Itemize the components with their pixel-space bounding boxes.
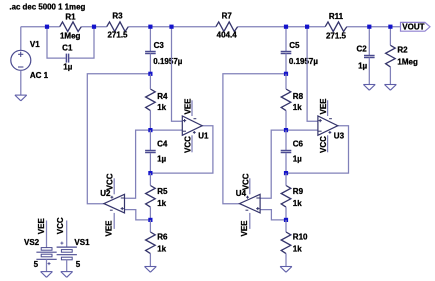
- op-amp U2: [104, 178, 125, 229]
- svg-text:1k: 1k: [293, 199, 302, 208]
- label R5: [157, 187, 168, 196]
- net label VEE U2: [104, 220, 113, 237]
- svg-text:VCC: VCC: [106, 173, 115, 190]
- label C2: [357, 45, 368, 54]
- label U3: [334, 132, 345, 141]
- capacitor C6: [281, 130, 292, 173]
- wire VS2 top: [46, 221, 48, 248]
- label value C3: [153, 57, 182, 66]
- label 5 VS1: [76, 260, 81, 269]
- svg-text:1µ: 1µ: [358, 62, 367, 71]
- resistor R7: [216, 22, 238, 32]
- ground VS2: [41, 272, 53, 278]
- wire top to U1 plus: [172, 27, 183, 122]
- wire U2 out to n2: [87, 74, 150, 204]
- svg-text:1µ: 1µ: [293, 154, 302, 163]
- label R11: [329, 12, 344, 21]
- svg-text:R2: R2: [397, 45, 408, 54]
- svg-text:C6: C6: [293, 139, 304, 148]
- svg-text:VEE: VEE: [37, 218, 46, 235]
- resistor R6: [146, 232, 156, 254]
- wire R4 bottom: [149, 111, 151, 131]
- label R8: [293, 92, 304, 101]
- wire n3 to U1 minus: [150, 129, 182, 131]
- wire R9 top: [285, 173, 287, 185]
- resistor R11: [325, 22, 347, 32]
- wire C2 riser: [368, 27, 370, 56]
- net label VEE U1: [184, 98, 193, 115]
- wire U3 out to n4: [286, 126, 349, 173]
- wire R9 bottom: [285, 207, 287, 220]
- label VS2: [24, 238, 40, 247]
- wire main mid2: [128, 26, 216, 28]
- label 1k R8: [293, 103, 302, 112]
- svg-text:R3: R3: [112, 12, 123, 21]
- label 1u C4: [157, 154, 166, 163]
- spice directive .ac: [9, 3, 85, 12]
- net label VEE U4: [240, 220, 249, 237]
- wire n3 to U2 minus: [125, 130, 151, 198]
- label U4: [236, 189, 247, 198]
- label R3: [112, 12, 123, 21]
- svg-text:0.1957µ: 0.1957µ: [289, 57, 318, 66]
- wire VS1 top: [66, 221, 68, 248]
- op-amp U4: [240, 178, 261, 229]
- svg-text:5: 5: [34, 260, 39, 269]
- net label VCC VS1: [56, 217, 65, 234]
- wire C1 branch: [47, 27, 94, 58]
- label 1Meg R1: [60, 32, 81, 41]
- svg-text:R9: R9: [293, 187, 304, 196]
- node junction C5 top: [284, 25, 288, 29]
- svg-text:VEE: VEE: [240, 220, 249, 237]
- label 1k R4: [157, 103, 166, 112]
- label 5 VS2: [34, 260, 39, 269]
- wire n3 to U3 minus: [286, 129, 318, 131]
- net label VCC U3: [319, 136, 328, 153]
- ground VS1: [61, 272, 73, 278]
- label C3: [154, 41, 165, 50]
- label R6: [157, 232, 168, 241]
- svg-text:AC 1: AC 1: [30, 71, 49, 80]
- svg-text:VCC: VCC: [319, 136, 328, 153]
- ground C2: [363, 85, 375, 91]
- node junction n2 C5-R8: [284, 72, 288, 76]
- wire R2 riser: [389, 27, 391, 46]
- label U1: [198, 132, 209, 141]
- label R4: [157, 92, 168, 101]
- label 1u C1: [63, 63, 72, 72]
- svg-text:VOUT: VOUT: [402, 23, 424, 32]
- ground R2: [385, 85, 397, 91]
- svg-text:C1: C1: [62, 44, 73, 53]
- voltage source VS1: [57, 242, 77, 260]
- capacitor C5: [281, 27, 292, 74]
- ground R6: [145, 267, 157, 273]
- svg-text:U3: U3: [334, 132, 345, 141]
- label R9: [293, 187, 304, 196]
- svg-text:C5: C5: [289, 41, 300, 50]
- label 1u C2: [358, 62, 367, 71]
- wire R10 top: [285, 220, 287, 232]
- svg-text:R11: R11: [329, 12, 344, 21]
- ground R10: [280, 267, 292, 273]
- label R10: [293, 232, 308, 241]
- label C1: [62, 44, 73, 53]
- wire R5 top: [149, 173, 151, 185]
- resistor R8: [281, 89, 291, 111]
- wire n3 to U4 minus: [260, 130, 286, 198]
- svg-text:1k: 1k: [157, 199, 166, 208]
- wire R10 bottom: [285, 254, 287, 267]
- label value C5: [289, 57, 318, 66]
- wire R6 bottom: [149, 254, 151, 267]
- svg-text:1Meg: 1Meg: [397, 58, 418, 67]
- label 271.5 R11: [326, 32, 347, 41]
- svg-text:VEE: VEE: [104, 220, 113, 237]
- node junction riser top: [305, 25, 309, 29]
- svg-text:404.4: 404.4: [217, 31, 238, 40]
- svg-text:VS1: VS1: [74, 238, 90, 247]
- svg-text:VCC: VCC: [56, 217, 65, 234]
- label C6: [293, 139, 304, 148]
- svg-text:R7: R7: [222, 12, 233, 21]
- label V1: [30, 40, 40, 49]
- node junction R1-right: [92, 25, 96, 29]
- svg-text:271.5: 271.5: [326, 32, 347, 41]
- svg-text:R1: R1: [65, 13, 76, 22]
- wire U1 out to n4: [150, 126, 213, 173]
- label 271.5 R3: [107, 31, 128, 40]
- wire R6 top: [149, 220, 151, 232]
- resistor R1: [60, 22, 82, 32]
- wire VS1 to gnd: [66, 260, 68, 272]
- resistor R9: [281, 186, 291, 208]
- wire n5 to U4 plus: [260, 210, 286, 220]
- resistor R10: [281, 232, 291, 254]
- capacitor C2: [364, 56, 375, 58]
- wire top to U3 plus: [307, 27, 318, 122]
- svg-text:1k: 1k: [293, 244, 302, 253]
- wire VS2 to gnd: [46, 259, 48, 271]
- node junction n5 R9-R10: [284, 218, 288, 222]
- svg-text:1µ: 1µ: [157, 154, 166, 163]
- node junction n5 R5-R6: [148, 218, 152, 222]
- node junction C2 top: [367, 25, 371, 29]
- label 1k R9: [293, 199, 302, 208]
- node junction R2 top: [388, 25, 392, 29]
- op-amp U1: [182, 100, 202, 152]
- svg-text:1k: 1k: [293, 103, 302, 112]
- node junction n3 R4-C4: [148, 128, 152, 132]
- svg-text:.ac dec 5000 1 1meg: .ac dec 5000 1 1meg: [9, 3, 85, 12]
- svg-text:VEE: VEE: [319, 98, 328, 115]
- node junction n3 R8-C6: [284, 128, 288, 132]
- wire n5 to U2 plus: [125, 210, 151, 220]
- net label VEE VS2: [37, 218, 46, 235]
- svg-text:R6: R6: [157, 232, 168, 241]
- svg-text:VCC: VCC: [184, 136, 193, 153]
- output port VOUT: [401, 22, 431, 31]
- wire main top: [21, 26, 60, 28]
- wire R8 bottom: [285, 111, 287, 131]
- svg-text:C4: C4: [157, 139, 168, 148]
- wire R8 top: [285, 74, 287, 89]
- svg-text:R10: R10: [293, 232, 308, 241]
- wire U4 out to n2: [223, 74, 286, 204]
- svg-text:271.5: 271.5: [107, 31, 128, 40]
- svg-text:VEE: VEE: [184, 98, 193, 115]
- svg-text:5: 5: [76, 260, 81, 269]
- net label VCC U2: [106, 173, 115, 190]
- op-amp U3: [318, 100, 338, 152]
- wire C2 to gnd: [368, 58, 370, 85]
- wire main mid1: [81, 26, 106, 28]
- svg-text:1Meg: 1Meg: [60, 32, 81, 41]
- svg-text:R4: R4: [157, 92, 168, 101]
- label VS1: [74, 238, 90, 247]
- svg-text:U1: U1: [198, 132, 209, 141]
- net label VCC U1: [184, 136, 193, 153]
- wire R5 bottom: [149, 207, 151, 220]
- resistor R3: [107, 22, 129, 32]
- node junction C3 top: [148, 25, 152, 29]
- node junction n4 C6-R9: [284, 171, 288, 175]
- svg-text:0.1957µ: 0.1957µ: [153, 57, 182, 66]
- capacitor C4: [145, 130, 156, 173]
- svg-text:1k: 1k: [157, 103, 166, 112]
- svg-text:V1: V1: [30, 40, 40, 49]
- ground V1: [15, 95, 27, 101]
- label 1u C6: [293, 154, 302, 163]
- label R7: [222, 12, 233, 21]
- svg-text:C2: C2: [357, 45, 368, 54]
- voltage source V1: [11, 27, 31, 95]
- net label VEE U3: [319, 98, 328, 115]
- svg-text:VCC: VCC: [241, 173, 250, 190]
- label 1k R5: [157, 199, 166, 208]
- label AC 1: [30, 71, 49, 80]
- svg-text:1k: 1k: [157, 244, 166, 253]
- node junction n2 C3-R4: [148, 72, 152, 76]
- voltage source VS2: [36, 248, 56, 266]
- label 1k R10: [293, 244, 302, 253]
- svg-text:R8: R8: [293, 92, 304, 101]
- wire main mid3: [238, 26, 326, 28]
- resistor R4: [146, 89, 156, 111]
- svg-text:VS2: VS2: [24, 238, 40, 247]
- svg-text:C3: C3: [154, 41, 165, 50]
- net label VCC U4: [241, 173, 250, 190]
- wire R2 to gnd: [389, 67, 391, 85]
- label U2: [100, 189, 111, 198]
- capacitor C1: [66, 54, 68, 63]
- capacitor C3: [145, 27, 156, 74]
- wire main right: [347, 26, 401, 28]
- wire R4 top: [149, 74, 151, 89]
- label R1: [65, 13, 76, 22]
- svg-text:R5: R5: [157, 187, 168, 196]
- node junction n4 C4-R5: [148, 171, 152, 175]
- label 1k R6: [157, 244, 166, 253]
- label C5: [289, 41, 300, 50]
- node junction riser top: [169, 25, 173, 29]
- node junction R1-left: [45, 25, 49, 29]
- svg-text:1µ: 1µ: [63, 63, 72, 72]
- label R2: [397, 45, 408, 54]
- resistor R2: [386, 45, 396, 67]
- label C4: [157, 139, 168, 148]
- label 1Meg R2: [397, 58, 418, 67]
- label 404.4 R7: [217, 31, 238, 40]
- resistor R5: [146, 186, 156, 208]
